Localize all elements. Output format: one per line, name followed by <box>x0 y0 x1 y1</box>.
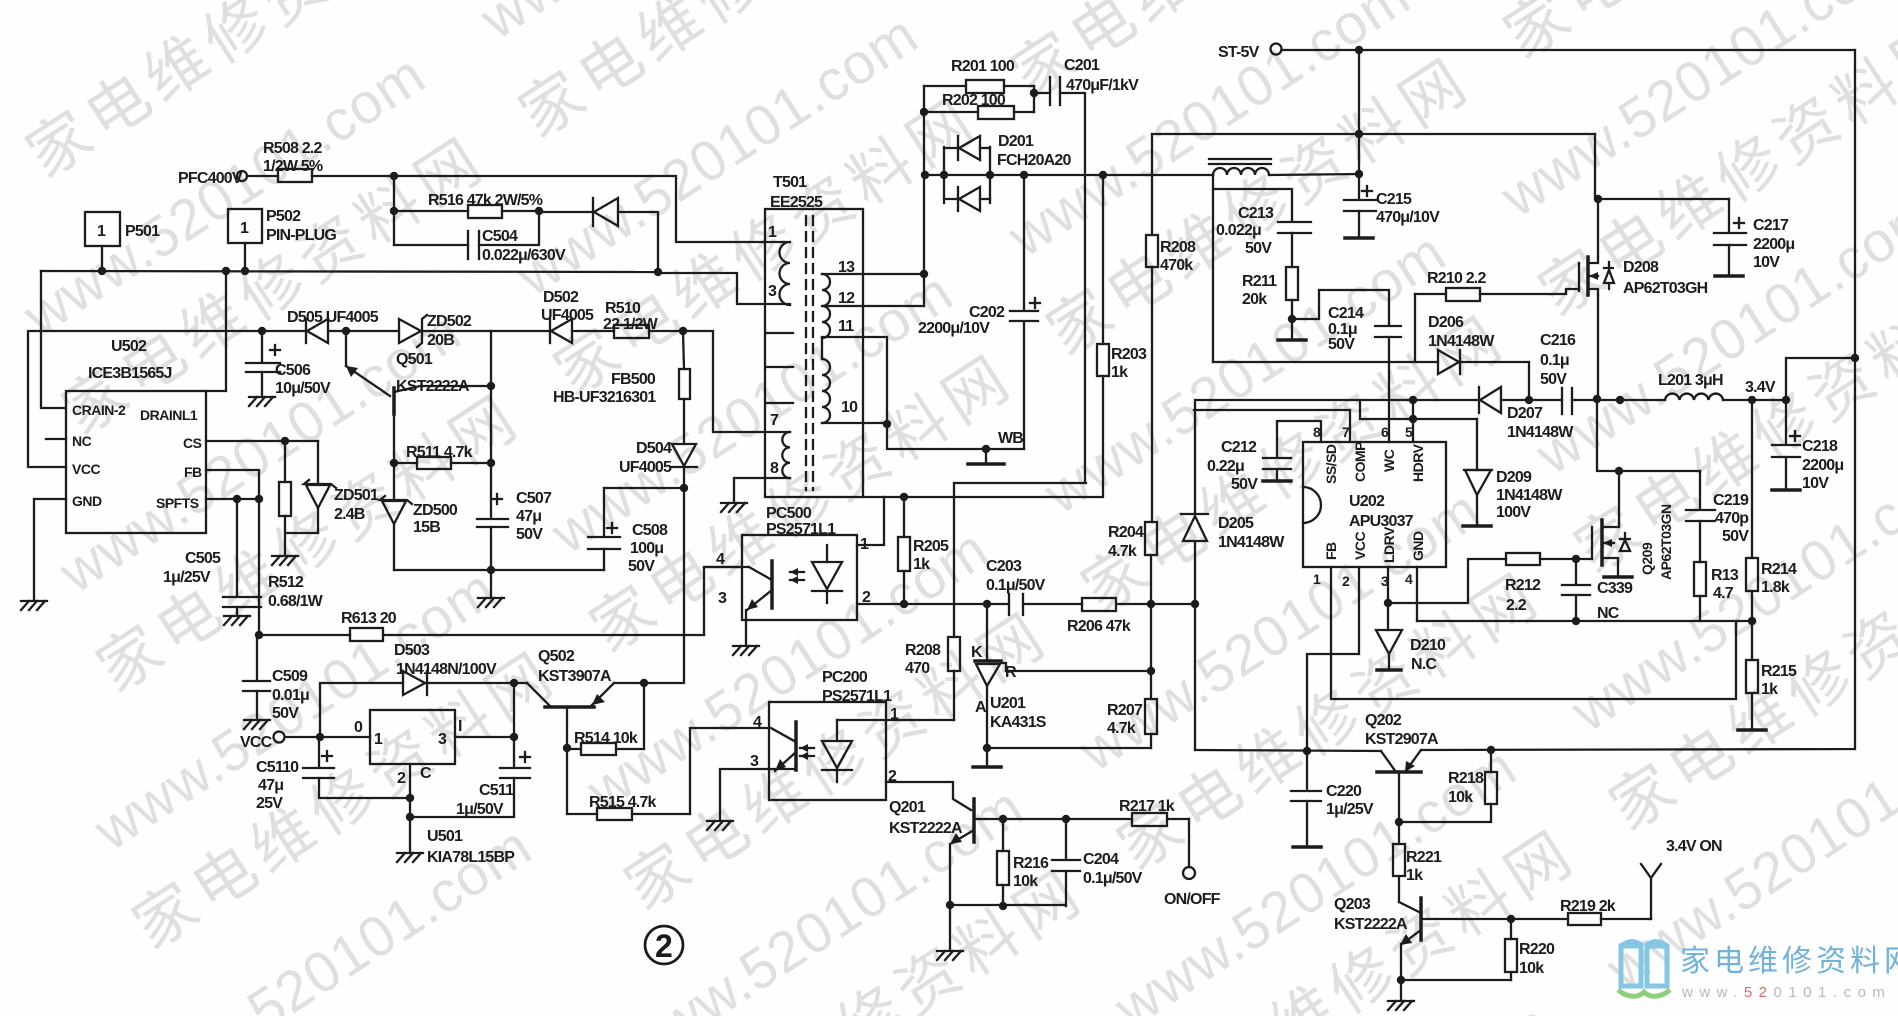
svg-text:47μ: 47μ <box>516 508 541 525</box>
ground C215 <box>1345 237 1373 239</box>
svg-text:2: 2 <box>655 928 673 964</box>
svg-text:2.2: 2.2 <box>1506 597 1527 614</box>
svg-text:8: 8 <box>1313 424 1321 440</box>
svg-text:COMP: COMP <box>1352 442 1368 482</box>
svg-text:1N4148W: 1N4148W <box>1496 487 1563 504</box>
svg-text:NC: NC <box>1597 605 1620 622</box>
svg-text:R613 20: R613 20 <box>341 610 397 627</box>
resistor R217 <box>1119 798 1189 826</box>
wire PC500 pin1 <box>857 497 884 545</box>
resistor R514 <box>567 683 644 755</box>
svg-text:www.520101.com: www.520101.com <box>1681 984 1891 1001</box>
wire VCC node to D503 line <box>320 683 403 737</box>
diode D505 <box>262 309 379 343</box>
wire PC200 pin2 to Q201 base <box>886 782 971 810</box>
svg-text:FCH20A20: FCH20A20 <box>997 152 1072 169</box>
svg-text:R210 2.2: R210 2.2 <box>1427 270 1486 287</box>
svg-text:R218: R218 <box>1448 770 1484 787</box>
svg-text:1μ/25V: 1μ/25V <box>163 569 211 586</box>
svg-text:KST2222A: KST2222A <box>1334 916 1408 933</box>
rectifier D201 FCH20A20 <box>944 133 1072 211</box>
wire drain node to C217 <box>1594 134 1729 203</box>
svg-text:22 1/2W: 22 1/2W <box>603 316 659 333</box>
svg-text:SS/SD: SS/SD <box>1323 444 1339 484</box>
wire U202 pin7 COMP to D205 <box>1194 410 1350 442</box>
wire U202 pin3 LDRV <box>1384 559 1506 607</box>
led PC500 internal <box>790 545 842 603</box>
svg-text:ICE3B1565J: ICE3B1565J <box>88 365 172 382</box>
wire C213 loop <box>1213 175 1292 362</box>
svg-text:U501: U501 <box>427 828 463 845</box>
svg-text:R214: R214 <box>1761 561 1797 578</box>
transistor Q201 KST2222A <box>889 799 985 905</box>
ground D209 <box>1463 525 1491 527</box>
svg-text:C204: C204 <box>1083 851 1119 868</box>
wire Q209 drain path <box>1597 399 1700 475</box>
svg-text:4.7k: 4.7k <box>1107 720 1136 737</box>
svg-text:C5110: C5110 <box>256 759 299 776</box>
svg-text:7: 7 <box>770 412 779 429</box>
wire PC200 pin3 to ground <box>720 769 796 820</box>
svg-text:0.1μ/50V: 0.1μ/50V <box>1083 870 1143 887</box>
svg-text:T501: T501 <box>773 174 807 191</box>
svg-text:C212: C212 <box>1221 439 1257 456</box>
svg-text:WB: WB <box>998 430 1023 447</box>
transistor Q501 KST2222A <box>346 331 495 414</box>
svg-text:KST2907A: KST2907A <box>1365 731 1439 748</box>
logo bottom right <box>1618 942 1898 1002</box>
svg-text:D505 UF4005: D505 UF4005 <box>287 309 379 326</box>
svg-text:D201: D201 <box>998 133 1034 150</box>
svg-text:50V: 50V <box>272 705 299 722</box>
svg-text:R219 2k: R219 2k <box>1560 898 1616 915</box>
wire FB node down to Q202 base <box>1195 604 1381 755</box>
wire to PC200 pin1 <box>886 719 954 721</box>
diode D504 <box>619 440 697 492</box>
svg-text:KA431S: KA431S <box>990 714 1047 731</box>
ground C505 <box>224 616 250 625</box>
svg-text:DRAINL1: DRAINL1 <box>140 407 198 423</box>
svg-text:470k: 470k <box>1160 257 1193 274</box>
svg-text:1μ/25V: 1μ/25V <box>1326 801 1374 818</box>
svg-text:R510: R510 <box>605 300 641 317</box>
wire PC500 pin4 external <box>704 566 749 568</box>
svg-text:R13: R13 <box>1711 567 1739 584</box>
wire PC500 pin2 to FB line <box>857 600 1009 608</box>
svg-text:R217 1k: R217 1k <box>1119 798 1175 815</box>
svg-text:20B: 20B <box>427 332 454 349</box>
svg-text:D206: D206 <box>1428 314 1464 331</box>
diode D503 <box>394 642 527 695</box>
svg-text:2: 2 <box>1342 573 1350 589</box>
svg-text:HDRV: HDRV <box>1410 443 1426 482</box>
wire R211 node to C214 <box>1292 290 1389 325</box>
svg-text:4: 4 <box>753 714 762 731</box>
wire T501 pin11 <box>822 337 887 424</box>
svg-text:C219: C219 <box>1713 492 1749 509</box>
svg-text:AP62T03GH: AP62T03GH <box>1623 280 1708 297</box>
svg-text:PIN-PLUG: PIN-PLUG <box>266 227 336 244</box>
capacitor C5110 <box>256 737 410 812</box>
resistor R206 <box>1067 598 1199 635</box>
resistor R510 <box>603 300 687 338</box>
IC U501 KIA78L15BP <box>354 710 515 866</box>
wire Q203 collector <box>1436 915 1568 923</box>
svg-text:50V: 50V <box>1245 240 1272 257</box>
svg-text:50V: 50V <box>1328 336 1355 353</box>
resistor R13 <box>1694 562 1739 621</box>
svg-text:2200μ/10V: 2200μ/10V <box>918 320 990 337</box>
diode D207 <box>1479 387 1574 441</box>
wire U202 pin1 FB feedback line <box>1331 567 1736 699</box>
svg-text:FB: FB <box>184 464 202 480</box>
diode D209 <box>1464 419 1563 524</box>
capacitor C203 <box>986 558 1082 615</box>
svg-text:Q502: Q502 <box>538 648 575 665</box>
svg-text:Q501: Q501 <box>396 351 433 368</box>
resistor R218 <box>1399 750 1497 822</box>
svg-text:1k: 1k <box>913 556 930 573</box>
inductor secondary filter <box>1209 159 1359 175</box>
wire 5V standby rail top <box>1282 46 1855 54</box>
svg-text:1: 1 <box>890 706 899 723</box>
svg-text:470p: 470p <box>1715 510 1749 527</box>
svg-text:A: A <box>975 699 987 716</box>
wire output line y=400 <box>1196 395 1624 404</box>
svg-text:50V: 50V <box>516 526 543 543</box>
diode D210 <box>1376 603 1446 673</box>
svg-text:D503: D503 <box>394 642 430 659</box>
svg-text:1N4148W: 1N4148W <box>1428 333 1495 350</box>
svg-text:C507: C507 <box>516 490 552 507</box>
svg-text:1k: 1k <box>1761 681 1778 698</box>
svg-text:C218: C218 <box>1802 438 1838 455</box>
svg-text:PC200: PC200 <box>822 669 868 686</box>
transformer T501 EE2525 <box>765 174 863 497</box>
ground R512/ZD501 <box>272 533 318 565</box>
svg-text:4.7: 4.7 <box>1713 585 1734 602</box>
wire R515 to PC200 pin4 <box>690 728 769 814</box>
svg-text:C: C <box>420 765 432 782</box>
svg-text:R202 100: R202 100 <box>942 92 1006 109</box>
resistor R202 <box>924 92 1034 119</box>
node VCC terminal <box>240 732 370 752</box>
svg-text:3: 3 <box>438 731 447 748</box>
svg-text:R205: R205 <box>913 538 949 555</box>
svg-text:D207: D207 <box>1507 405 1543 422</box>
wire y=362 line <box>1213 361 1438 363</box>
resistor R613 <box>255 610 704 641</box>
wire R613 to PC500 pin4 <box>704 567 742 635</box>
IC U502 ICE3B1565J <box>66 338 206 533</box>
svg-text:R514 10k: R514 10k <box>574 730 638 747</box>
svg-text:R215: R215 <box>1761 663 1797 680</box>
wire T501 pin3 to bus <box>658 273 790 304</box>
svg-text:Q209: Q209 <box>1639 542 1655 575</box>
svg-text:UF4005: UF4005 <box>541 307 594 324</box>
wire GND pin <box>34 499 66 600</box>
wire PFC rail to T501 pin1 <box>390 172 790 242</box>
svg-text:0.022μ/630V: 0.022μ/630V <box>482 247 566 264</box>
svg-text:ON/OFF: ON/OFF <box>1164 891 1221 908</box>
svg-text:UF4005: UF4005 <box>619 459 672 476</box>
svg-text:KIA78L15BP: KIA78L15BP <box>427 849 515 866</box>
capacitor C507 <box>477 331 552 570</box>
zener ZD502 <box>346 313 491 349</box>
svg-text:1k: 1k <box>1111 364 1128 381</box>
svg-text:K: K <box>971 644 983 661</box>
inductor L201 <box>1658 372 1723 400</box>
wire CS to R512/ZD501 <box>206 437 318 445</box>
svg-text:0.68/1W: 0.68/1W <box>268 593 324 610</box>
svg-text:KST2222A: KST2222A <box>889 820 963 837</box>
wire SPFTS row <box>206 495 263 635</box>
diode D206 <box>1428 314 1529 400</box>
svg-text:U201: U201 <box>990 695 1026 712</box>
svg-text:R216: R216 <box>1013 855 1049 872</box>
svg-text:1: 1 <box>1313 571 1321 587</box>
svg-text:R201 100: R201 100 <box>951 58 1015 75</box>
transistor Q202 KST2907A <box>1365 712 1439 826</box>
wire U202 pin8 to C212 <box>1277 421 1321 457</box>
wire y=483 C201 return <box>954 483 1086 637</box>
ground C509 <box>244 720 270 729</box>
wire rectified rail y=175 <box>921 171 1213 179</box>
svg-text:50V: 50V <box>628 558 655 575</box>
svg-text:3.4V ON: 3.4V ON <box>1666 838 1722 855</box>
capacitor C216 <box>1540 332 1598 414</box>
svg-text:R208: R208 <box>905 642 941 659</box>
svg-text:0.01μ: 0.01μ <box>272 687 309 704</box>
capacitor C214 <box>1328 305 1401 442</box>
wire Q201 collector line <box>985 815 1132 823</box>
resistor R211 <box>1242 267 1298 323</box>
diode top-left (R516 series) <box>539 198 658 273</box>
svg-text:1/2W 5%: 1/2W 5% <box>263 158 323 175</box>
svg-text:R203: R203 <box>1111 346 1147 363</box>
connector P502 <box>228 208 336 271</box>
svg-text:10k: 10k <box>1448 789 1473 806</box>
svg-text:P501: P501 <box>125 223 160 240</box>
svg-text:C504: C504 <box>482 228 518 245</box>
resistor R516 <box>390 176 543 245</box>
resistor R205 <box>898 497 949 604</box>
svg-text:1N4148N/100V: 1N4148N/100V <box>396 661 497 678</box>
svg-text:10k: 10k <box>1519 960 1544 977</box>
resistor R512 <box>268 441 324 610</box>
svg-text:R208: R208 <box>1160 239 1196 256</box>
svg-text:R516 47k 2W/5%: R516 47k 2W/5% <box>428 192 543 209</box>
resistor R221 <box>1393 822 1442 902</box>
svg-text:R221: R221 <box>1406 849 1442 866</box>
svg-text:10: 10 <box>841 399 858 416</box>
node ST-5V terminal <box>1218 44 1282 62</box>
svg-text:C339: C339 <box>1597 580 1633 597</box>
wire bus to CRAIN-2 <box>41 271 66 408</box>
ground R215 <box>1738 729 1766 731</box>
svg-text:2.4B: 2.4B <box>334 506 365 523</box>
svg-text:R512: R512 <box>268 574 304 591</box>
winding T501 primary upper <box>780 242 791 305</box>
svg-text:1.8k: 1.8k <box>1761 579 1790 596</box>
node Q502 emitter junction <box>640 679 648 687</box>
svg-text:1k: 1k <box>1406 867 1423 884</box>
wire U501 pin3 node <box>455 683 518 741</box>
optocoupler PC500 PS2571L1 <box>716 505 871 620</box>
svg-text:3: 3 <box>718 590 727 607</box>
wire 3.4V rail <box>1598 379 1790 404</box>
capacitor C220 <box>1291 751 1374 846</box>
svg-text:C505: C505 <box>185 550 221 567</box>
resistor R219 <box>1560 898 1651 925</box>
node ON/OFF terminal <box>1164 819 1221 908</box>
svg-text:6: 6 <box>1381 424 1389 440</box>
svg-text:N.C: N.C <box>1411 656 1437 673</box>
wire U201 anode row <box>987 748 1151 765</box>
node D505-ZD502 junction <box>342 327 350 335</box>
svg-text:VCC: VCC <box>1352 532 1368 560</box>
svg-text:C511: C511 <box>479 782 514 799</box>
svg-text:2200μ: 2200μ <box>1753 236 1794 253</box>
svg-text:50V: 50V <box>1540 371 1567 388</box>
shunt U201 KA431S <box>971 604 1047 752</box>
svg-text:5: 5 <box>1405 424 1413 440</box>
svg-text:470: 470 <box>905 660 930 677</box>
optocoupler PC200 PS2571L1 <box>750 669 899 800</box>
svg-text:0.1μ: 0.1μ <box>1540 352 1569 369</box>
zener ZD500 <box>380 463 458 570</box>
svg-text:1N4148W: 1N4148W <box>1218 534 1285 551</box>
resistor R212 <box>1505 553 1592 614</box>
svg-text:PS2571L1: PS2571L1 <box>766 521 836 538</box>
svg-text:R204: R204 <box>1108 524 1144 541</box>
svg-text:ZD501: ZD501 <box>334 487 379 504</box>
svg-text:C506: C506 <box>275 362 311 379</box>
svg-text:470μ/10V: 470μ/10V <box>1376 209 1440 226</box>
capacitor C201 <box>1030 57 1139 483</box>
mosfet Q209 AP62T03GN <box>1592 471 1674 580</box>
ground C506 <box>249 397 275 406</box>
zener ZD501 <box>304 441 379 533</box>
svg-text:100μ: 100μ <box>630 540 663 557</box>
svg-text:GND: GND <box>72 493 102 509</box>
svg-text:11: 11 <box>838 318 854 335</box>
capacitor C504 <box>394 211 566 264</box>
ground U502 GND <box>21 601 47 610</box>
ground PC500 pin3 <box>733 646 759 655</box>
ground U201 <box>973 766 1001 768</box>
svg-text:FB: FB <box>1323 542 1339 560</box>
resistor R208 470 <box>905 637 960 720</box>
svg-text:D502: D502 <box>543 289 579 306</box>
svg-text:1: 1 <box>374 731 383 748</box>
wire T501 pin8 to ground <box>734 478 790 502</box>
wire bottom join y=570 <box>394 566 604 597</box>
node PFC400V terminal <box>178 170 247 187</box>
svg-text:2: 2 <box>397 770 406 787</box>
ground C217 <box>1715 275 1743 277</box>
svg-text:L201 3μH: L201 3μH <box>1658 372 1723 389</box>
svg-text:0.1μ/50V: 0.1μ/50V <box>986 577 1046 594</box>
svg-text:4: 4 <box>716 551 725 568</box>
wire right edge rail <box>1421 50 1855 754</box>
ground C220 <box>1293 846 1321 848</box>
svg-text:10μ/50V: 10μ/50V <box>275 380 331 397</box>
ground C507 <box>478 598 504 607</box>
wire main bus y=272 <box>41 267 662 276</box>
svg-text:C203: C203 <box>986 558 1022 575</box>
svg-text:8: 8 <box>770 460 779 477</box>
IC U202 APU3037 <box>1303 424 1446 589</box>
capacitor C508 <box>588 488 684 575</box>
capacitor C215 <box>1344 186 1440 237</box>
svg-text:10V: 10V <box>1753 254 1780 271</box>
svg-text:2200μ: 2200μ <box>1802 457 1843 474</box>
svg-text:U202: U202 <box>1349 493 1385 510</box>
transistor Q203 KST2222A <box>1334 896 1436 945</box>
svg-text:3: 3 <box>768 283 777 300</box>
svg-text:7: 7 <box>1342 424 1350 440</box>
ground Q203 <box>1388 1001 1414 1010</box>
svg-text:KST2222A: KST2222A <box>396 378 470 395</box>
svg-text:D208: D208 <box>1623 259 1659 276</box>
wire FB pin <box>206 470 259 499</box>
ground C212 <box>1263 480 1291 482</box>
svg-text:LDRV: LDRV <box>1381 526 1397 563</box>
wire 3.4V to right rail <box>1786 354 1859 400</box>
svg-text:SPFTS: SPFTS <box>156 495 199 511</box>
capacitor C511 <box>410 737 530 818</box>
wire Q502 collector <box>563 707 571 752</box>
svg-text:VCC: VCC <box>72 461 100 477</box>
wire Q203 emitter <box>1397 944 1511 1000</box>
wire NC stub <box>46 438 66 440</box>
svg-text:4: 4 <box>1405 571 1413 587</box>
node WB <box>887 424 1024 464</box>
capacitor C509 <box>243 635 309 722</box>
svg-text:50V: 50V <box>1722 528 1749 545</box>
svg-text:Q203: Q203 <box>1334 896 1371 913</box>
svg-text:Q202: Q202 <box>1365 712 1402 729</box>
svg-text:R207: R207 <box>1107 702 1143 719</box>
node 3.4V ON arrow <box>1641 838 1722 919</box>
wire D504 node down to Q502 emitter node <box>644 488 684 683</box>
svg-text:D504: D504 <box>636 440 672 457</box>
resistor R210 <box>1415 270 1579 362</box>
svg-text:ZD502: ZD502 <box>427 313 472 330</box>
svg-text:R508 2.2: R508 2.2 <box>263 140 322 157</box>
wire T501 pin12 <box>822 274 924 306</box>
svg-text:C213: C213 <box>1238 205 1274 222</box>
svg-text:10V: 10V <box>1802 475 1829 492</box>
connector P501 <box>85 212 160 271</box>
capacitor C339 <box>1562 559 1633 622</box>
wire bus to DRAINL1 <box>206 271 226 391</box>
svg-text:AP62T03GN: AP62T03GN <box>1658 504 1674 580</box>
wire R510 node to T501 pin7 <box>683 331 790 432</box>
capacitor C204 <box>1052 819 1143 906</box>
ground U501 <box>397 853 423 862</box>
svg-text:C214: C214 <box>1328 305 1364 322</box>
node page number 2 <box>645 926 683 964</box>
wire U202 pin2 VCC <box>1307 567 1359 751</box>
svg-text:0.022μ: 0.022μ <box>1216 222 1261 239</box>
transistor PC500 internal <box>746 561 772 645</box>
svg-text:D205: D205 <box>1218 515 1254 532</box>
svg-text:470μF/1kV: 470μF/1kV <box>1066 77 1139 94</box>
svg-text:EE2525: EE2525 <box>770 194 823 211</box>
winding T501 primary lower <box>782 432 790 478</box>
